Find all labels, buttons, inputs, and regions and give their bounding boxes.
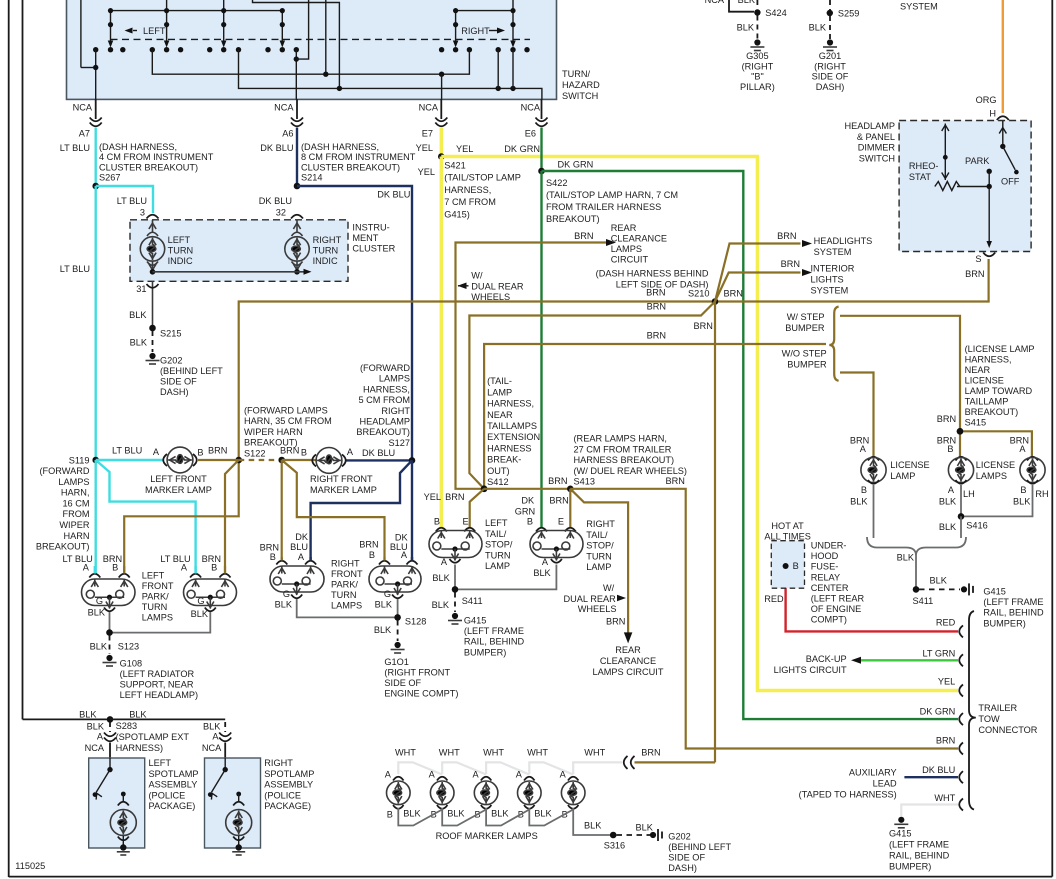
svg-text:LT BLU: LT BLU	[60, 143, 90, 153]
svg-text:LAMP: LAMP	[485, 561, 510, 571]
svg-text:BLK: BLK	[129, 710, 147, 720]
svg-text:BLK: BLK	[403, 809, 421, 819]
svg-text:LIGHTS: LIGHTS	[811, 275, 844, 285]
svg-text:NCA: NCA	[521, 103, 541, 113]
svg-text:S316: S316	[604, 841, 625, 851]
svg-text:E7: E7	[422, 129, 433, 139]
svg-text:"B": "B"	[751, 72, 764, 82]
svg-text:LEFT SIDE OF DASH): LEFT SIDE OF DASH)	[616, 280, 709, 290]
svg-text:S416: S416	[966, 521, 987, 531]
svg-text:WIPER: WIPER	[59, 520, 89, 530]
svg-text:TURN: TURN	[586, 551, 612, 561]
svg-text:REAR: REAR	[611, 223, 637, 233]
svg-text:HARN, 35 CM FROM: HARN, 35 CM FROM	[244, 416, 332, 426]
svg-text:A: A	[948, 485, 955, 495]
svg-text:S283: S283	[116, 721, 137, 731]
svg-text:BRN: BRN	[936, 736, 955, 746]
svg-text:CIRCUIT: CIRCUIT	[611, 255, 649, 265]
svg-text:A7: A7	[79, 129, 90, 139]
svg-text:(LEFT RADIATOR: (LEFT RADIATOR	[120, 669, 195, 679]
svg-text:BUMPER): BUMPER)	[983, 618, 1025, 628]
svg-text:BLK: BLK	[491, 809, 509, 819]
svg-text:S422: S422	[546, 178, 567, 188]
svg-text:BUMPER: BUMPER	[785, 323, 825, 333]
svg-text:B: B	[301, 448, 307, 458]
svg-text:LAMPS CIRCUIT: LAMPS CIRCUIT	[593, 667, 664, 677]
svg-text:G: G	[96, 596, 103, 606]
svg-text:HARNESS,: HARNESS,	[487, 399, 534, 409]
svg-text:A: A	[401, 550, 408, 560]
svg-text:BRN: BRN	[781, 259, 800, 269]
svg-text:WHT: WHT	[527, 748, 548, 758]
svg-text:TRAILER: TRAILER	[978, 703, 1017, 713]
svg-text:TURN: TURN	[485, 550, 511, 560]
svg-text:NEAR: NEAR	[965, 365, 991, 375]
svg-text:HAZARD: HAZARD	[562, 80, 600, 90]
svg-text:MENT: MENT	[352, 233, 378, 243]
svg-text:LIGHTS CIRCUIT: LIGHTS CIRCUIT	[774, 665, 847, 675]
svg-text:LAMP: LAMP	[487, 387, 512, 397]
svg-text:BLK: BLK	[90, 642, 108, 652]
svg-text:BLK: BLK	[534, 809, 552, 819]
svg-text:(RIGHT: (RIGHT	[742, 61, 774, 71]
svg-text:(RIGHT: (RIGHT	[814, 61, 846, 71]
svg-text:GRN: GRN	[515, 507, 535, 517]
svg-text:B: B	[369, 550, 375, 560]
svg-text:(LEFT FRAME: (LEFT FRAME	[983, 597, 1043, 607]
svg-text:S128: S128	[405, 617, 426, 627]
svg-text:FROM: FROM	[62, 509, 89, 519]
svg-text:BLK: BLK	[1013, 497, 1031, 507]
svg-text:W/ STEP: W/ STEP	[787, 312, 825, 322]
svg-text:DASH): DASH)	[816, 82, 845, 92]
svg-text:UNDER-: UNDER-	[811, 541, 847, 551]
svg-text:A: A	[542, 557, 549, 567]
svg-text:LT BLU: LT BLU	[60, 264, 90, 274]
svg-text:LAMP: LAMP	[586, 562, 611, 572]
svg-text:RIGHT: RIGHT	[381, 406, 410, 416]
svg-text:LAMP TOWARD: LAMP TOWARD	[965, 386, 1033, 396]
svg-text:DUAL REAR: DUAL REAR	[471, 281, 524, 291]
svg-text:BLU: BLU	[290, 542, 308, 552]
svg-text:RAIL, BEHIND: RAIL, BEHIND	[889, 851, 950, 861]
svg-text:(BEHIND LEFT: (BEHIND LEFT	[160, 366, 223, 376]
svg-text:A: A	[1019, 444, 1026, 454]
svg-text:BLK: BLK	[275, 600, 293, 610]
svg-text:YEL: YEL	[456, 144, 473, 154]
svg-text:YEL: YEL	[418, 167, 435, 177]
svg-text:FRONT: FRONT	[331, 569, 363, 579]
svg-text:RIGHT: RIGHT	[313, 235, 342, 245]
svg-text:BLK: BLK	[809, 23, 827, 33]
svg-text:BLK: BLK	[636, 823, 654, 833]
svg-text:S123: S123	[118, 642, 139, 652]
svg-text:STAT: STAT	[909, 172, 932, 182]
svg-text:INSTRU-: INSTRU-	[352, 223, 389, 233]
svg-text:BLK: BLK	[129, 310, 147, 320]
svg-text:LEFT: LEFT	[485, 518, 508, 528]
svg-text:DK BLU: DK BLU	[922, 765, 955, 775]
svg-text:PACKAGE): PACKAGE)	[264, 801, 311, 811]
svg-text:(W/ DUEL REAR WHEELS): (W/ DUEL REAR WHEELS)	[574, 466, 688, 476]
svg-text:CENTER: CENTER	[811, 583, 849, 593]
svg-text:E: E	[558, 517, 564, 527]
svg-text:G305: G305	[746, 51, 768, 61]
svg-text:S259: S259	[838, 9, 859, 19]
svg-text:27 CM FROM TRAILER: 27 CM FROM TRAILER	[574, 444, 672, 454]
svg-text:BRN: BRN	[606, 617, 625, 627]
svg-text:(DASH HARNESS,: (DASH HARNESS,	[99, 142, 177, 152]
svg-text:YEL: YEL	[416, 143, 433, 153]
svg-text:G202: G202	[160, 356, 182, 366]
svg-text:LEFT: LEFT	[142, 571, 165, 581]
svg-text:A: A	[385, 770, 392, 780]
svg-text:OF ENGINE: OF ENGINE	[811, 604, 862, 614]
svg-text:ASSEMBLY: ASSEMBLY	[149, 780, 198, 790]
svg-text:BREAKOUT): BREAKOUT)	[965, 407, 1019, 417]
svg-text:BRN: BRN	[574, 231, 593, 241]
svg-text:PARK: PARK	[965, 156, 990, 166]
svg-text:STOP/: STOP/	[586, 541, 614, 551]
svg-text:CLUSTER BREAKOUT): CLUSTER BREAKOUT)	[99, 162, 198, 172]
svg-text:W/: W/	[603, 583, 615, 593]
svg-text:YEL: YEL	[938, 677, 955, 687]
svg-text:FUSE-: FUSE-	[811, 562, 839, 572]
svg-text:A: A	[860, 444, 867, 454]
svg-text:E: E	[463, 517, 469, 527]
svg-text:PACKAGE): PACKAGE)	[149, 801, 196, 811]
svg-text:STOP/: STOP/	[485, 540, 513, 550]
svg-text:INDIC: INDIC	[168, 256, 193, 266]
svg-text:BLK: BLK	[432, 600, 450, 610]
svg-text:BRN: BRN	[548, 476, 567, 486]
svg-text:(POLICE: (POLICE	[149, 790, 186, 800]
svg-text:A: A	[560, 770, 567, 780]
svg-text:A: A	[516, 770, 523, 780]
svg-text:MARKER LAMP: MARKER LAMP	[145, 485, 212, 495]
svg-text:PARK/: PARK/	[142, 592, 169, 602]
svg-text:(RIGHT FRONT: (RIGHT FRONT	[384, 668, 450, 678]
svg-text:DK BLU: DK BLU	[260, 143, 293, 153]
svg-text:LAMPS: LAMPS	[58, 477, 89, 487]
svg-text:NCA: NCA	[419, 103, 439, 113]
svg-text:NEAR: NEAR	[487, 410, 513, 420]
svg-text:WHEELS: WHEELS	[471, 292, 510, 302]
svg-text:FROM TRAILER HARNESS: FROM TRAILER HARNESS	[546, 202, 661, 212]
svg-text:INDIC: INDIC	[313, 256, 338, 266]
svg-text:SUPPORT, NEAR: SUPPORT, NEAR	[120, 680, 194, 690]
svg-text:(LEFT FRAME: (LEFT FRAME	[889, 840, 949, 850]
svg-text:(TAIL/STOP LAMP: (TAIL/STOP LAMP	[444, 173, 521, 183]
svg-text:DK BLU: DK BLU	[362, 448, 395, 458]
svg-text:(LEFT REAR: (LEFT REAR	[811, 594, 865, 604]
svg-text:BLK: BLK	[87, 722, 105, 732]
svg-text:S411: S411	[913, 596, 934, 606]
svg-text:BLK: BLK	[584, 821, 602, 831]
svg-text:LAMP: LAMP	[890, 471, 915, 481]
svg-text:S122: S122	[244, 448, 265, 458]
svg-text:BRN: BRN	[280, 446, 299, 456]
svg-text:(DASH HARNESS,: (DASH HARNESS,	[301, 142, 379, 152]
svg-text:EXTENSION: EXTENSION	[487, 432, 540, 442]
svg-text:TURN: TURN	[168, 246, 194, 256]
svg-text:DK GRN: DK GRN	[558, 160, 594, 170]
svg-text:DASH): DASH)	[160, 387, 189, 397]
svg-text:CLEARANCE: CLEARANCE	[611, 234, 667, 244]
svg-text:BREAK-: BREAK-	[487, 455, 521, 465]
svg-text:G415: G415	[889, 829, 911, 839]
svg-text:NCA: NCA	[274, 103, 294, 113]
svg-text:BLK: BLK	[203, 722, 221, 732]
svg-text:CONNECTOR: CONNECTOR	[978, 725, 1037, 735]
svg-text:S424: S424	[765, 8, 786, 18]
svg-text:(BEHIND LEFT: (BEHIND LEFT	[668, 842, 731, 852]
svg-text:CLUSTER BREAKOUT): CLUSTER BREAKOUT)	[301, 162, 400, 172]
svg-text:S127: S127	[389, 438, 410, 448]
svg-text:LEFT FRONT: LEFT FRONT	[150, 474, 207, 484]
svg-text:ASSEMBLY: ASSEMBLY	[264, 780, 313, 790]
svg-text:LT GRN: LT GRN	[922, 649, 955, 659]
svg-text:PARK/: PARK/	[331, 580, 358, 590]
svg-text:RIGHT: RIGHT	[461, 26, 490, 36]
svg-text:S215: S215	[160, 329, 181, 339]
svg-text:7 CM FROM: 7 CM FROM	[444, 197, 496, 207]
svg-text:TURN/: TURN/	[562, 69, 591, 79]
svg-text:A: A	[441, 557, 448, 567]
svg-text:SYSTEM: SYSTEM	[811, 286, 849, 296]
svg-text:31: 31	[136, 284, 146, 294]
svg-text:(FORWARD LAMPS: (FORWARD LAMPS	[244, 406, 328, 416]
svg-text:S421: S421	[444, 161, 465, 171]
svg-text:WHT: WHT	[483, 748, 504, 758]
svg-text:B: B	[861, 485, 867, 495]
svg-text:ROOF MARKER LAMPS: ROOF MARKER LAMPS	[436, 831, 538, 841]
svg-text:(TAPED TO HARNESS): (TAPED TO HARNESS)	[799, 790, 897, 800]
svg-text:BLK: BLK	[850, 497, 868, 507]
svg-text:BLK: BLK	[737, 23, 755, 33]
svg-text:A: A	[473, 770, 480, 780]
svg-text:LEFT: LEFT	[149, 758, 172, 768]
svg-text:MARKER LAMP: MARKER LAMP	[310, 485, 377, 495]
svg-text:BLK: BLK	[939, 497, 957, 507]
svg-text:HEADLIGHTS: HEADLIGHTS	[814, 236, 873, 246]
svg-text:BLK: BLK	[447, 809, 465, 819]
svg-text:LICENSE: LICENSE	[976, 460, 1015, 470]
svg-text:G: G	[197, 596, 204, 606]
svg-text:RAIL, BEHIND: RAIL, BEHIND	[464, 637, 525, 647]
svg-text:8 CM FROM INSTRUMENT: 8 CM FROM INSTRUMENT	[301, 152, 416, 162]
svg-text:CLEARANCE: CLEARANCE	[600, 656, 656, 666]
svg-text:BLK: BLK	[930, 576, 948, 586]
svg-text:FRONT: FRONT	[142, 581, 174, 591]
svg-text:S412: S412	[487, 477, 508, 487]
svg-text:DK GRN: DK GRN	[920, 707, 956, 717]
svg-text:LAMPS: LAMPS	[331, 601, 362, 611]
svg-text:B: B	[211, 563, 217, 573]
svg-text:BREAKOUT): BREAKOUT)	[36, 542, 90, 552]
svg-text:BLK: BLK	[897, 553, 915, 563]
svg-text:HARNESS: HARNESS	[487, 443, 531, 453]
svg-text:BRN: BRN	[647, 302, 666, 312]
svg-text:BLK: BLK	[375, 600, 393, 610]
svg-text:SIDE OF: SIDE OF	[160, 377, 197, 387]
svg-text:BUMPER): BUMPER)	[889, 862, 931, 872]
svg-text:RED: RED	[936, 618, 956, 628]
svg-text:A: A	[298, 552, 305, 562]
svg-text:G415): G415)	[444, 209, 470, 219]
svg-text:B: B	[112, 563, 118, 573]
svg-text:LEFT: LEFT	[168, 235, 191, 245]
svg-text:S214: S214	[301, 173, 322, 183]
svg-text:LICENSE: LICENSE	[965, 376, 1004, 386]
svg-text:(POLICE: (POLICE	[264, 790, 301, 800]
svg-text:32: 32	[276, 208, 286, 218]
svg-text:SWITCH: SWITCH	[859, 153, 895, 163]
svg-text:LAMPS: LAMPS	[611, 244, 642, 254]
svg-text:BUMPER): BUMPER)	[464, 647, 506, 657]
svg-text:(FORWARD: (FORWARD	[39, 466, 89, 476]
svg-text:BRN: BRN	[724, 289, 743, 299]
svg-text:S210: S210	[688, 289, 709, 299]
svg-text:LT BLU: LT BLU	[112, 446, 142, 456]
svg-text:E6: E6	[525, 129, 536, 139]
svg-text:W/O STEP: W/O STEP	[782, 349, 827, 359]
svg-text:OFF: OFF	[1001, 177, 1020, 187]
svg-text:WHT: WHT	[439, 748, 460, 758]
svg-text:SIDE OF: SIDE OF	[384, 678, 421, 688]
svg-text:TURN: TURN	[313, 246, 339, 256]
svg-text:SIDE OF: SIDE OF	[812, 72, 849, 82]
svg-text:B: B	[434, 517, 440, 527]
svg-text:BRN: BRN	[647, 331, 666, 341]
svg-text:BREAKOUT): BREAKOUT)	[356, 427, 410, 437]
svg-text:SPOTLAMP: SPOTLAMP	[264, 769, 314, 779]
svg-text:BLK: BLK	[88, 608, 106, 618]
svg-text:NCA: NCA	[85, 743, 105, 753]
svg-text:BLK: BLK	[533, 568, 551, 578]
svg-text:NCA: NCA	[73, 103, 93, 113]
svg-text:TAIL/: TAIL/	[586, 530, 608, 540]
svg-text:B: B	[387, 810, 393, 820]
svg-text:HARNESS,: HARNESS,	[965, 355, 1012, 365]
svg-text:S415: S415	[965, 418, 986, 428]
svg-text:BLK: BLK	[130, 338, 148, 348]
svg-text:BRN: BRN	[359, 540, 378, 550]
svg-text:A: A	[212, 732, 219, 742]
svg-text:WIPER HARN: WIPER HARN	[244, 427, 303, 437]
svg-text:(TAIL-: (TAIL-	[487, 376, 512, 386]
svg-text:G202: G202	[668, 832, 690, 842]
svg-text:G: G	[384, 589, 391, 599]
svg-text:115025: 115025	[15, 861, 45, 871]
svg-text:ORG: ORG	[976, 95, 997, 105]
svg-text:RIGHT: RIGHT	[331, 559, 360, 569]
svg-text:HEADLAMP: HEADLAMP	[359, 417, 410, 427]
svg-text:HOOD: HOOD	[811, 551, 839, 561]
svg-text:DUAL REAR: DUAL REAR	[564, 594, 617, 604]
svg-text:RIGHT: RIGHT	[586, 519, 615, 529]
svg-text:BLK: BLK	[191, 609, 209, 619]
svg-text:WHT: WHT	[395, 748, 416, 758]
svg-text:B: B	[1020, 485, 1026, 495]
svg-text:INTERIOR: INTERIOR	[811, 264, 855, 274]
svg-text:DK GRN: DK GRN	[504, 144, 540, 154]
svg-text:HARNESS,: HARNESS,	[444, 185, 491, 195]
svg-text:BRN: BRN	[445, 492, 464, 502]
svg-text:S267: S267	[99, 173, 120, 183]
svg-text:RIGHT FRONT: RIGHT FRONT	[310, 474, 373, 484]
svg-text:BREAKOUT): BREAKOUT)	[546, 214, 600, 224]
svg-text:BRN: BRN	[694, 321, 713, 331]
svg-text:NCA: NCA	[705, 0, 725, 5]
svg-text:(SPOTLAMP EXT: (SPOTLAMP EXT	[116, 732, 190, 742]
svg-text:DIMMER: DIMMER	[858, 143, 896, 153]
svg-text:BLK: BLK	[374, 625, 392, 635]
svg-text:BRN: BRN	[641, 748, 660, 758]
svg-text:G1O1: G1O1	[384, 657, 409, 667]
svg-text:(TAIL/STOP LAMP HARN, 7 CM: (TAIL/STOP LAMP HARN, 7 CM	[546, 190, 678, 200]
svg-text:(REAR LAMPS HARN,: (REAR LAMPS HARN,	[574, 434, 667, 444]
svg-text:TOW: TOW	[978, 714, 1000, 724]
svg-text:RHEO-: RHEO-	[909, 161, 939, 171]
svg-text:S411: S411	[462, 596, 483, 606]
svg-text:REAR: REAR	[615, 645, 641, 655]
svg-text:LH: LH	[963, 489, 975, 499]
svg-text:(DASH HARNESS BEHIND: (DASH HARNESS BEHIND	[596, 269, 709, 279]
svg-text:A: A	[347, 447, 354, 457]
svg-text:B: B	[947, 444, 953, 454]
svg-text:A: A	[97, 732, 104, 742]
svg-text:B: B	[527, 517, 533, 527]
svg-text:HARN: HARN	[63, 531, 89, 541]
svg-text:HEADLAMP: HEADLAMP	[844, 121, 895, 131]
svg-text:4 CM FROM INSTRUMENT: 4 CM FROM INSTRUMENT	[99, 152, 214, 162]
svg-text:SIDE OF: SIDE OF	[668, 853, 705, 863]
svg-text:S413: S413	[574, 477, 595, 487]
svg-text:PILLAR): PILLAR)	[740, 82, 775, 92]
svg-text:RAIL, BEHIND: RAIL, BEHIND	[983, 608, 1044, 618]
svg-text:TAILLAMPS: TAILLAMPS	[487, 421, 537, 431]
svg-text:DASH): DASH)	[668, 863, 697, 873]
svg-text:WHT: WHT	[584, 748, 605, 758]
svg-text:(FORWARD: (FORWARD	[360, 363, 410, 373]
svg-text:BLK: BLK	[79, 710, 97, 720]
svg-text:LAMPS: LAMPS	[379, 374, 410, 384]
svg-text:& PANEL: & PANEL	[857, 132, 895, 142]
svg-text:LAMPS: LAMPS	[976, 471, 1007, 481]
svg-text:LEFT: LEFT	[143, 26, 166, 36]
svg-text:OUT): OUT)	[487, 466, 509, 476]
svg-text:TAIL/: TAIL/	[485, 529, 507, 539]
svg-text:G108: G108	[120, 659, 142, 669]
svg-text:RH: RH	[1035, 489, 1048, 499]
svg-text:BLK: BLK	[738, 0, 756, 5]
svg-text:(LICENSE LAMP: (LICENSE LAMP	[965, 344, 1035, 354]
svg-text:5 CM FROM: 5 CM FROM	[358, 395, 410, 405]
svg-text:DK BLU: DK BLU	[259, 196, 292, 206]
svg-text:AUXILIARY: AUXILIARY	[849, 768, 897, 778]
svg-text:CLUSTER: CLUSTER	[352, 244, 395, 254]
svg-text:BUMPER: BUMPER	[787, 360, 827, 370]
svg-text:TURN: TURN	[142, 602, 168, 612]
svg-text:G415: G415	[983, 587, 1005, 597]
svg-text:S119: S119	[69, 456, 90, 466]
svg-text:B: B	[197, 448, 203, 458]
svg-text:DK BLU: DK BLU	[377, 190, 410, 200]
svg-text:RED: RED	[764, 594, 784, 604]
svg-text:B: B	[270, 552, 276, 562]
svg-text:A: A	[429, 770, 436, 780]
